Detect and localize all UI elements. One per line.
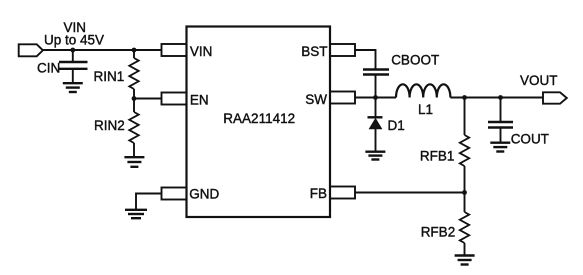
svg-text:COUT: COUT (511, 132, 549, 147)
svg-text:RIN1: RIN1 (94, 69, 125, 84)
svg-text:CIN: CIN (37, 60, 60, 75)
svg-text:BST: BST (301, 44, 327, 59)
svg-text:RAA211412: RAA211412 (223, 111, 295, 126)
svg-text:SW: SW (305, 92, 327, 107)
svg-text:RFB2: RFB2 (421, 225, 456, 240)
svg-text:RFB1: RFB1 (420, 148, 455, 163)
svg-text:L1: L1 (418, 102, 433, 117)
svg-text:VOUT: VOUT (520, 73, 558, 88)
svg-text:CBOOT: CBOOT (391, 53, 439, 68)
svg-text:EN: EN (190, 92, 209, 107)
svg-text:D1: D1 (388, 118, 405, 133)
svg-text:RIN2: RIN2 (94, 118, 125, 133)
svg-text:GND: GND (189, 186, 219, 201)
svg-text:FB: FB (310, 186, 327, 201)
svg-text:VIN: VIN (190, 44, 213, 59)
svg-text:Up to 45V: Up to 45V (44, 33, 104, 48)
